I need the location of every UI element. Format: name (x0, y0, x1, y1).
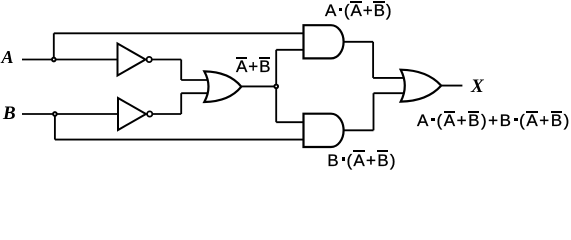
label expression X = A.(A-bar+B-bar)+B.(A-bar+B-bar) (417, 112, 571, 129)
inverter U2 bubble (147, 111, 152, 116)
wire into AND1 bottom input (276, 49, 303, 51)
wire top rail A to AND1 top input (54, 32, 304, 34)
wire bend down to OR1 top input (180, 60, 182, 81)
label AND2 output B.(A-bar+B-bar) (327, 152, 396, 169)
junction node OR1 output (274, 85, 278, 89)
label node A-bar+B-bar (236, 58, 271, 75)
label input A (2, 48, 14, 66)
wire input B horizontal (22, 113, 118, 115)
wire junction vertical down to AND2 (275, 86, 277, 122)
wire AND2 output (344, 129, 374, 131)
OR gate OR1 (204, 71, 241, 102)
wire AND1 output (344, 41, 374, 43)
wire into OR1 top input (181, 79, 208, 81)
wire input A horizontal (22, 59, 118, 61)
inverter U1 bubble (147, 57, 152, 62)
wire bend down to OR2 top input (372, 42, 374, 78)
wire bend up to OR1 bottom input (180, 93, 182, 114)
wire inverter U2 output (153, 113, 181, 115)
wire branch B vertical down (54, 114, 56, 140)
inverter U1 triangle (118, 44, 146, 76)
junction node B (53, 112, 57, 116)
wire junction vertical up to AND1 (275, 50, 277, 87)
wire branch A vertical up (53, 33, 55, 59)
label AND1 output A.(A-bar+B-bar) (325, 2, 392, 19)
label input B (3, 104, 16, 123)
AND gate AND2 (304, 114, 344, 147)
wire into OR1 bottom input (181, 92, 208, 94)
wire into OR2 top input (373, 77, 404, 79)
wire output X (441, 85, 462, 87)
wire OR1 output (241, 85, 276, 87)
wire inverter U1 output (153, 59, 182, 61)
wire into OR2 bottom input (374, 92, 405, 94)
label output X (471, 77, 484, 96)
wire bend up to OR2 bottom input (373, 93, 375, 130)
junction node A (52, 58, 56, 62)
AND gate AND1 (304, 25, 344, 58)
wire into AND2 top input (276, 121, 303, 123)
wire bottom rail B to AND2 bottom input (55, 139, 304, 141)
inverter U2 triangle (118, 98, 146, 130)
OR gate OR2 (401, 70, 442, 102)
